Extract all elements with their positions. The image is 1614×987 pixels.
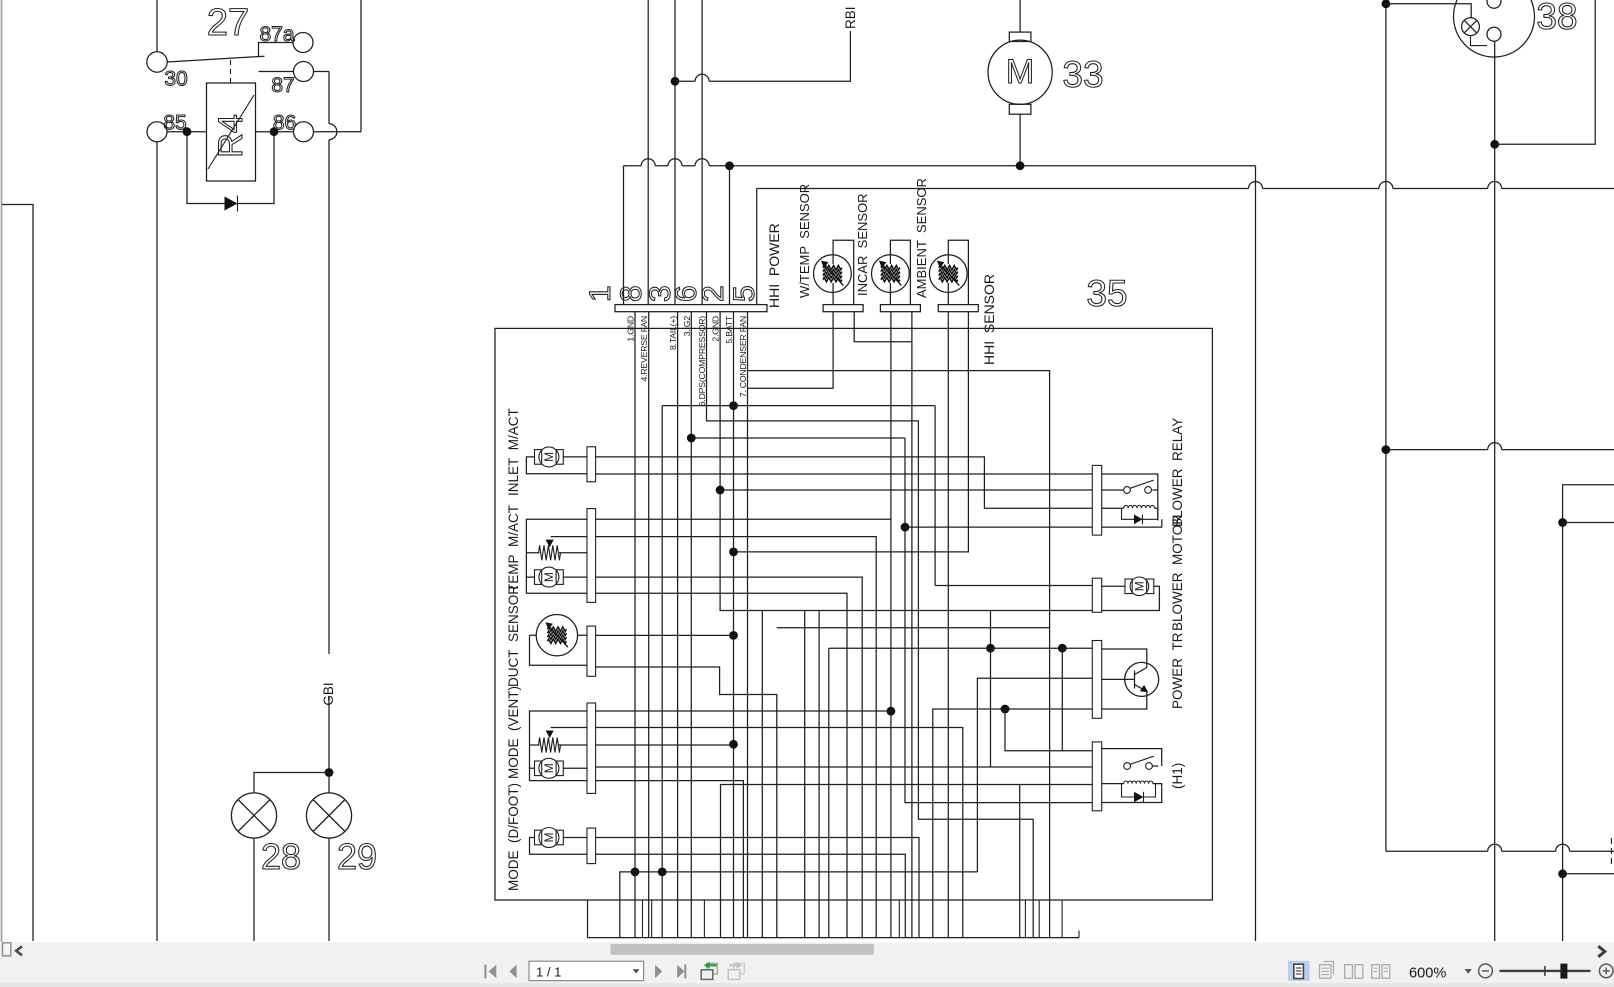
mode dfoot motor: [535, 830, 542, 845]
svg-text:5.BATT: 5.BATT: [724, 315, 734, 343]
junction 85: [183, 127, 192, 136]
terminal circle 86: [294, 122, 314, 142]
svg-text:MODE (D/FOOT): MODE (D/FOOT): [506, 783, 521, 891]
38 inner link: [1471, 36, 1488, 46]
svg-text:M: M: [542, 572, 556, 582]
lamp 28: [231, 793, 276, 838]
first page button: [484, 965, 486, 979]
comb left drop to connector: [623, 166, 625, 305]
RBI hop over feed C: [695, 74, 709, 81]
drop from y188 wire to connector: [756, 189, 758, 305]
duct out wires: [596, 634, 734, 636]
svg-text:DUCT SENSOR: DUCT SENSOR: [506, 585, 521, 687]
rotate ccw button: [707, 963, 718, 974]
comb hops: [641, 159, 655, 166]
wire: relay to 86: [256, 131, 294, 133]
wire y522: [1563, 522, 1614, 524]
branch y370: [748, 371, 1050, 938]
wire hop over 86 line: [329, 124, 337, 140]
inlet actuator motor: [535, 450, 542, 465]
junction y449: [1382, 445, 1391, 454]
connector 38 outline: [1454, 0, 1535, 57]
38 lamp: [1462, 18, 1480, 36]
38 pin circle: [1487, 27, 1501, 41]
temp out wires: [596, 518, 891, 520]
wire RBI: [675, 31, 850, 81]
top link to lamp 38: [1386, 4, 1471, 18]
right partial box: [1563, 485, 1614, 941]
HHI unit box: [495, 328, 1212, 900]
sensor2 right leg down: [911, 342, 913, 938]
wire: 87 stub: [259, 71, 294, 73]
svg-text:2: 2: [697, 285, 730, 302]
motor 33 lower wire: [1019, 114, 1021, 166]
svg-text:29: 29: [337, 836, 377, 877]
dashed edge mark: [1610, 838, 1612, 868]
wire y873: [1563, 873, 1614, 875]
svg-text:BLOWER RELAY: BLOWER RELAY: [1170, 418, 1185, 527]
route to H1 pin3: [1020, 785, 1093, 938]
branch y405: [662, 406, 935, 586]
sensor2 left leg down: [890, 312, 892, 938]
scroll right arrow: [1598, 946, 1605, 957]
svg-text:M: M: [1006, 53, 1034, 91]
bottom connector stubs: [642, 900, 644, 938]
bottom bus row y872: [620, 872, 978, 938]
wire to lamp 29: [328, 773, 330, 793]
svg-text:AMBIENT SENSOR: AMBIENT SENSOR: [914, 178, 929, 298]
page number box: [529, 961, 644, 980]
svg-text:1: 1: [584, 285, 617, 302]
scroll left arrow: [16, 946, 22, 955]
temp wiring: [526, 519, 587, 593]
zoom in button: [1599, 964, 1613, 978]
power tr emitter net: [933, 709, 1093, 938]
blower motor strip: [1092, 578, 1101, 612]
bottom connector bus: [588, 937, 1080, 939]
layout icon 4: [1372, 965, 1380, 979]
motor M33 feed: [1019, 0, 1021, 32]
next page button: [655, 965, 662, 978]
blower relay strip: [1092, 465, 1101, 535]
H1 diode loop: [1122, 784, 1156, 797]
wire pin7 CONDENSER FAN: [747, 312, 749, 938]
power tr strip: [1092, 641, 1101, 719]
wire y851: [1386, 850, 1614, 852]
sensor connector bar: [823, 305, 863, 312]
inlet lower out wire to relay: [596, 473, 1093, 475]
bus wire right end drop x1255: [1255, 166, 1257, 941]
layout icon 2: [1320, 965, 1332, 979]
long wire y188 across top: [757, 188, 1614, 190]
svg-text:M: M: [542, 833, 556, 843]
mode vent strip: [587, 703, 596, 793]
svg-text:1 / 1: 1 / 1: [536, 964, 561, 979]
wire GBI lower: [328, 697, 330, 773]
svg-text:35: 35: [1086, 273, 1127, 314]
wire pin8 TAIL: [677, 312, 679, 938]
sensor circle: [872, 255, 910, 293]
power tr collector net: [829, 648, 1093, 937]
svg-text:4.REVERSE FAN: 4.REVERSE FAN: [639, 316, 649, 381]
svg-text:HHI POWER: HHI POWER: [766, 223, 782, 308]
blower relay coil: [1102, 507, 1158, 509]
sensor3 left leg down: [947, 312, 949, 938]
wire feed A (to pin 8): [647, 0, 649, 305]
wire below lamp 29: [328, 838, 330, 941]
wire: 87 to GBI drop: [314, 71, 330, 73]
wire pin2 GND2: [720, 312, 1092, 611]
wire: 85 to relay: [167, 131, 207, 133]
junction 86: [270, 127, 279, 136]
layout icon 1 (active): [1288, 961, 1310, 981]
comb junction drop (pin 2): [725, 161, 734, 170]
svg-text:33: 33: [1062, 54, 1103, 95]
mode vent out wires: [596, 710, 891, 712]
branch blower motor feed: [935, 585, 1092, 587]
H1 strip: [1092, 742, 1101, 811]
H1 switch: [1102, 749, 1162, 766]
wire pin5 BATT: [733, 312, 735, 938]
page left edge: [1, 0, 3, 942]
sensor connector bar: [880, 305, 920, 312]
temp strip: [587, 509, 596, 603]
mode vent arrow: [546, 731, 554, 739]
diode D: [225, 197, 238, 211]
svg-text:86: 86: [273, 112, 296, 135]
duct strip: [587, 626, 596, 676]
branch pin3 to blower relay: [691, 438, 1092, 803]
inlet out wires: [596, 457, 1093, 508]
connector bar HHI POWER: [615, 305, 767, 312]
duct wiring: [530, 635, 588, 665]
layout icon 3: [1345, 965, 1353, 979]
svg-text:R4: R4: [212, 114, 250, 157]
sensor circle: [929, 255, 967, 293]
riser wire at x361: [360, 0, 362, 132]
H1 coil: [1102, 784, 1162, 803]
wire below lamp 28: [253, 838, 255, 941]
temp resistor: [539, 545, 561, 560]
svg-text:W/TEMP SENSOR: W/TEMP SENSOR: [797, 184, 812, 298]
lamp 29: [306, 793, 351, 838]
wire: 87a stub: [259, 43, 294, 57]
svg-text:INCAR SENSOR: INCAR SENSOR: [855, 193, 870, 296]
power transistor: [1125, 662, 1159, 696]
inlet connector strip: [587, 447, 596, 482]
toolbar background: [0, 943, 1614, 987]
wire feed B (to pin 3) + RBI junction: [674, 0, 676, 305]
power tr base net: [977, 678, 1092, 872]
branch y552 from sensor3: [734, 312, 969, 552]
route to H1 pin1: [1005, 709, 1092, 751]
duct sensor circle: [536, 615, 577, 656]
svg-text:BLOWER MOTOR: BLOWER MOTOR: [1170, 515, 1185, 631]
wire pin4 REVERSE FAN: [648, 312, 650, 938]
svg-text:MODE (VENT): MODE (VENT): [506, 686, 521, 779]
inlet wiring: [526, 457, 587, 474]
svg-text:30: 30: [164, 68, 187, 91]
wire pin1 GND: [634, 312, 636, 938]
svg-text:3.IG2: 3.IG2: [682, 316, 692, 337]
sensor AMBIENT loop: [948, 240, 968, 304]
wire y449: [1386, 449, 1614, 451]
mode dfoot out wires: [596, 838, 919, 938]
route y627: [777, 627, 1050, 629]
sensor circle: [814, 255, 852, 293]
temp actuator motor: [535, 570, 542, 585]
riser b: [661, 406, 663, 938]
prev page button: [509, 965, 516, 978]
route 1062 down: [1061, 648, 1063, 751]
blower relay pin4 internal: [1102, 519, 1162, 527]
svg-text:RBI: RBI: [843, 6, 858, 29]
wire GBI upper: [328, 140, 330, 654]
svg-text:28: 28: [261, 836, 301, 877]
junction GBI: [325, 768, 334, 777]
svg-text:6.DPS(COMPRESSOR): 6.DPS(COMPRESSOR): [697, 316, 707, 407]
diode loop around R4: [187, 136, 274, 204]
rotate cw button (disabled): [734, 963, 745, 974]
sensor W/TEMP loop: [833, 240, 854, 304]
horizontal scrollbar thumb: [611, 944, 874, 955]
motor 33: [1009, 32, 1031, 41]
sensor INCAR loop: [890, 240, 910, 304]
wire: 86 to right riser: [314, 131, 362, 133]
sensor connector bar: [938, 305, 978, 312]
scroll corner box: [3, 943, 11, 956]
wire from 38 down: [1494, 41, 1496, 941]
route to H1 pin2: [990, 611, 992, 768]
svg-text:600%: 600%: [1409, 966, 1446, 982]
wire: long left drop from 85: [156, 142, 158, 941]
svg-text:87: 87: [271, 74, 294, 97]
svg-text:POWER TR: POWER TR: [1170, 632, 1185, 709]
svg-text:8.TAIL(+): 8.TAIL(+): [668, 316, 678, 350]
svg-text:27: 27: [207, 2, 249, 44]
zoom slider: [1499, 970, 1590, 972]
wire: feed to relay contact 30: [156, 0, 158, 52]
terminal circle 30: [147, 52, 167, 72]
right riser x1385: [1385, 0, 1387, 851]
gnd bus taps down: [761, 611, 763, 938]
last page button: [677, 965, 684, 978]
mode vent resistor: [539, 738, 561, 753]
svg-text:TEMP M/ACT: TEMP M/ACT: [506, 505, 521, 592]
wire pin6 DPS: [707, 312, 1034, 938]
svg-text:M: M: [1132, 581, 1146, 591]
bus wire (comb) y166: [624, 165, 1256, 167]
mode vent motor: [535, 761, 542, 776]
terminal circle 87a: [293, 33, 313, 53]
wire to lamp 28: [254, 773, 329, 794]
zoom out button: [1479, 964, 1493, 978]
relay switch arm: [167, 56, 264, 62]
svg-text:87a: 87a: [259, 23, 294, 46]
mode dfoot strip: [587, 828, 596, 864]
terminal circle 87: [294, 62, 314, 82]
mode dfoot wiring: [530, 838, 588, 855]
wire feed C (to pin 6): [701, 0, 703, 305]
terminal circle 85: [147, 122, 167, 142]
svg-text:M: M: [542, 763, 556, 773]
temp var-resistor arrow: [546, 540, 554, 548]
wire: page-left stub: [2, 205, 33, 942]
svg-text:(H1): (H1): [1170, 763, 1185, 789]
svg-text:HHI SENSOR: HHI SENSOR: [981, 274, 997, 365]
relay R4 box: [207, 83, 256, 181]
relay coil dashed actuator line: [230, 60, 232, 83]
blower motor: [1102, 586, 1160, 610]
svg-text:M: M: [542, 452, 556, 462]
wire to top right riser: [1495, 0, 1596, 144]
branch y490 to blower relay: [720, 489, 1092, 491]
mode vent wiring: [530, 711, 588, 781]
blower relay switch: [1102, 474, 1158, 521]
blower relay diode loop: [1122, 508, 1158, 519]
sensor1 right leg + tie: [854, 312, 912, 342]
svg-text:38: 38: [1536, 0, 1577, 37]
wire pin3 IG2: [690, 312, 692, 938]
branch y388 to sensor1: [748, 312, 834, 389]
svg-text:INLET M/ACT: INLET M/ACT: [506, 408, 521, 496]
svg-text:5: 5: [728, 285, 761, 302]
